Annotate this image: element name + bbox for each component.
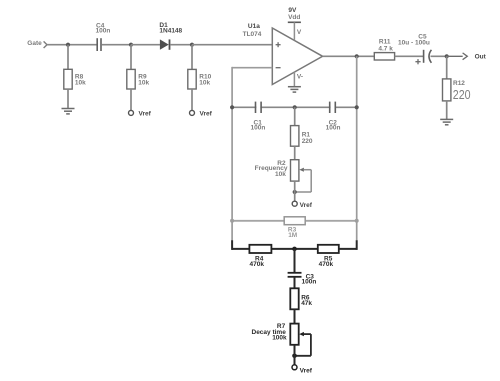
resistor R6 [290,288,312,309]
svg-text:Vdd: Vdd [288,14,300,21]
svg-text:100n: 100n [96,28,111,35]
resistor R5 [318,245,339,268]
wire R12 top [446,56,448,79]
wire left vertical dark bottom [231,240,233,250]
resistor R9 [127,69,150,89]
svg-text:V: V [297,29,302,36]
wire R10 top [191,45,193,70]
node junction R9 [129,43,133,47]
svg-text:10k: 10k [138,80,149,87]
node Vref terminal under R7 [292,365,313,375]
svg-text:Vref: Vref [139,110,152,117]
svg-text:100k: 100k [272,335,287,342]
svg-text:100n: 100n [302,278,317,285]
node junction R10 [190,43,194,47]
wire R1 to R2 [294,146,296,160]
wire C4 to R9 node [102,44,131,46]
wire R7 bottom to Vref [294,345,296,365]
node output junction [355,54,359,58]
wire R8 bottom [67,89,69,108]
resistor R12 [443,79,471,102]
diode D1 [159,22,182,50]
capacitor C5 polarized [398,33,431,64]
wire R10 bottom [191,89,193,111]
wire C3 top [294,249,296,272]
wire R10 node to op-amp plus input [192,44,272,46]
resistor R3 [284,217,305,239]
resistor R8 [64,69,86,89]
potentiometer R7 [252,323,311,356]
wire op-amp output [323,55,375,57]
svg-text:9V: 9V [288,7,297,14]
wire right vertical dark bottom [356,240,358,250]
node Vref terminal under R9 [129,110,152,117]
power flag 9V Vdd [288,7,302,40]
wire C5 to out node [431,55,447,57]
svg-text:Vref: Vref [200,110,213,117]
pin V- of op-amp [294,72,303,87]
node left C1 junction [230,105,234,109]
svg-text:R12: R12 [453,80,465,87]
node out junction [445,54,449,58]
svg-text:V-: V- [297,73,303,80]
svg-text:470k: 470k [319,261,334,268]
svg-text:10k: 10k [199,80,210,87]
capacitor C1 [251,102,266,132]
wire C3 to R6 [294,277,296,289]
node R3 right junction [355,219,359,223]
resistor R10 [188,69,212,89]
wire left feedback vertical [231,67,233,240]
node Gate input chevron [44,41,47,48]
wire op-amp minus input [232,67,272,69]
svg-text:Vref: Vref [300,368,313,375]
resistor R1 [291,126,313,147]
svg-text:Out: Out [475,54,487,61]
node junction R8 [66,43,70,47]
ground under R12 [440,119,453,124]
capacitor C2 [326,102,341,132]
svg-text:220: 220 [453,87,471,102]
wire R4 R5 horizontal dark [232,248,357,250]
wire R11 to C5 [395,55,424,57]
svg-text:10k: 10k [75,80,86,87]
wire R6 to R7 [294,309,296,323]
node Vref terminal under R2 [292,201,313,209]
resistor R11 [374,39,394,60]
svg-text:1M: 1M [288,232,297,239]
svg-text:10k: 10k [275,171,286,178]
capacitor C3 [288,273,317,286]
wire R9 top [130,45,132,70]
node Out arrow [447,53,487,61]
svg-text:TL074: TL074 [243,31,262,38]
wire R8 top [67,45,69,70]
wire R9 node to D1 [131,44,160,46]
svg-text:Vref: Vref [300,202,313,209]
wire D1 to R10 node [170,44,192,46]
svg-text:47k: 47k [301,300,312,307]
capacitor C4 [96,22,111,51]
wire R9 bottom [130,89,132,111]
wire C1 C2 horizontal [232,106,357,108]
node Gate input label [27,40,42,47]
resistor R4 [249,245,271,268]
wire R3 horizontal gray [232,220,357,222]
op-amp U1a [243,23,323,84]
svg-text:100n: 100n [326,125,341,132]
wire gate to C4 [47,44,97,46]
svg-text:100n: 100n [251,125,266,132]
node R3 left junction [230,219,234,223]
svg-text:4.7 k: 4.7 k [378,45,393,52]
node Vref terminal under R10 [190,110,213,117]
svg-text:220: 220 [302,138,313,145]
svg-text:1N4148: 1N4148 [159,27,182,34]
svg-text:470k: 470k [250,261,265,268]
svg-text:10u - 100u: 10u - 100u [398,39,430,46]
wire R2 bottom to Vref [294,181,296,201]
wire R12 bottom [446,101,448,119]
wire R1 top [294,107,296,125]
wire right feedback vertical [356,56,358,240]
svg-text:U1a: U1a [248,23,260,30]
ground under op-amp [288,87,301,92]
node R4 R5 junction [292,247,297,252]
svg-text:Gate: Gate [27,40,42,47]
ground under R8 [62,109,75,114]
node right C2 junction [355,105,359,109]
node R7 wiper junction [292,354,297,359]
node R2 wiper junction [293,190,297,194]
potentiometer R2 [255,160,312,192]
node middle R1 junction [293,105,297,109]
